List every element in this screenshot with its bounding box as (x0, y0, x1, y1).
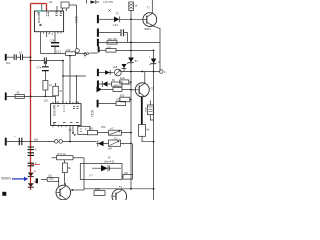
svg-text:C74: C74 (37, 66, 42, 70)
resistor below Q2 emitter (139, 125, 146, 137)
wire row y50.8 to right bus (116, 49, 154, 51)
wire shield line x76.5 (76, 5, 78, 48)
svg-text:8.2k: 8.2k (120, 76, 126, 80)
resistor 183 (88, 130, 98, 134)
svg-text:820: 820 (114, 84, 119, 88)
svg-text:T.1: T.1 (147, 6, 151, 10)
zener Z2 on right bus (151, 59, 157, 64)
connector circles pair bottom (54, 140, 58, 144)
junction dot (130, 18, 132, 20)
svg-text:IC31: IC31 (90, 110, 94, 117)
wire Q3 right side (66, 183, 85, 190)
svg-text:B56: B56 (49, 177, 54, 181)
transistor Q3 (56, 185, 71, 200)
svg-text:1k8: 1k8 (108, 37, 113, 41)
svg-text:C38: C38 (50, 39, 55, 43)
resistor above IC2 (53, 86, 59, 96)
IC U1 (IC21) box (35, 11, 64, 32)
pin highlight cyan (38, 10, 44, 12)
svg-text:4.7: 4.7 (110, 126, 114, 130)
IC2 bottom pin drop x70 (69, 126, 71, 142)
wire row y141.5 (7, 141, 55, 143)
svg-text:B829: B829 (145, 27, 152, 31)
terminal bar (98, 47, 100, 53)
IC2 pin stubs (53, 102, 79, 128)
connector circle right (159, 70, 163, 74)
resistor 822 (116, 101, 126, 105)
IC21 interior marks (38, 12, 62, 26)
riser x84 (83, 158, 85, 190)
connector circle (75, 49, 79, 53)
wire pin riser (41, 4, 43, 11)
resistor 105 (123, 175, 133, 180)
svg-text:IC21: IC21 (74, 16, 78, 23)
connector circles pair (84, 53, 87, 56)
svg-text:118: 118 (107, 46, 112, 50)
IC2 riser x63 long (62, 61, 64, 104)
IC21 bottom pin drops (41, 32, 56, 54)
trimpot box row y132.6 (109, 130, 122, 135)
wire to terminal (90, 52, 98, 54)
capacitor C38 (51, 43, 59, 46)
resistor 220 (66, 52, 76, 56)
wire bottom row y188.8 (84, 188, 154, 190)
diode small on row y71.5 (122, 64, 127, 68)
svg-text:R85: R85 (95, 187, 100, 191)
wire C38 down (54, 47, 56, 54)
wire y76 branch (63, 75, 86, 77)
red branch right (31, 163, 41, 165)
diode row y89.8 (97, 87, 102, 92)
transistor Q4 (112, 189, 127, 204)
diode dark on red rail upper (28, 173, 34, 177)
row2 terminal bar (97, 29, 99, 37)
resistor top right vertical (129, 2, 134, 11)
resistor on right bus vertical (147, 105, 153, 115)
wire Q2 emitter thick down (141, 97, 143, 125)
wire row y72.5 (99, 72, 114, 74)
red tick (34, 171, 36, 183)
svg-text:820: 820 (120, 94, 125, 98)
electrolytic cap plates (42, 67, 49, 71)
resistor long row y157.7 (52, 157, 57, 159)
capacitor pair on y60.6 (44, 57, 46, 64)
diode D row1 (114, 17, 120, 23)
wire Q1 emitter to right drop (153, 26, 161, 72)
resistor 118 (106, 49, 116, 53)
svg-text:103: 103 (44, 99, 49, 103)
wire cap2 to row3 (124, 33, 128, 43)
vertical chain x45 (44, 61, 46, 97)
svg-text:1.3A: 1.3A (113, 23, 119, 27)
resistor left of Q2 lower (120, 97, 130, 102)
wire Q1 collector up (151, 0, 153, 13)
svg-text:250: 250 (101, 125, 106, 129)
pot circle with arrow (114, 69, 121, 76)
svg-text:K?: K? (90, 174, 94, 178)
junction red (30, 141, 32, 143)
diode row y84 terminal bar (97, 81, 99, 88)
resistor 56 (15, 94, 24, 98)
electrolytic cap row y141.5 (19, 138, 22, 145)
wire to junction x70 (63, 141, 97, 143)
wire red drop to IC21 pin (46, 4, 48, 12)
diode in box (101, 165, 108, 171)
resistor bottom (94, 191, 105, 196)
row y103.5 terminal bar (97, 100, 99, 108)
wire Q2 base from bus (131, 89, 135, 91)
wire right of red y60.6 (31, 60, 45, 62)
wire red rail vertical (30, 4, 32, 191)
wire red top horizontal (31, 3, 47, 5)
resistor row y89.8 (113, 87, 122, 91)
resistor row y84 (112, 82, 123, 86)
wire box drops (63, 8, 67, 11)
svg-text:1k8: 1k8 (108, 147, 113, 151)
diode dark on red rail lower (28, 183, 34, 187)
riser x132.6 (132, 144, 134, 175)
resistor on x45 (43, 81, 48, 91)
transistor Q2 (135, 83, 149, 97)
svg-text:183: 183 (89, 127, 94, 131)
junction dot (130, 50, 132, 52)
trimpot box row y143.5 (109, 140, 121, 146)
wire to R118 (100, 49, 106, 51)
capacitor pair 2 (21, 54, 23, 60)
svg-text:602: 602 (34, 137, 39, 141)
x mark (109, 10, 111, 12)
blue arrow (12, 178, 25, 180)
black square bottom left (2, 192, 6, 196)
wire row y132.6 (90, 132, 131, 134)
resistor row3 (107, 41, 117, 44)
junction dots row71.5 (130, 71, 132, 73)
wire main row y53.5 (41, 53, 66, 55)
capacitor electrolytic row2 (121, 29, 124, 36)
wire to red rail (23, 56, 31, 58)
IC21 bottom pin stubs (44, 32, 62, 34)
wire row1 y19.3 (99, 18, 114, 20)
wire row1 to T1 base (120, 18, 143, 20)
svg-text:705: 705 (124, 171, 129, 175)
row3 terminal bar (97, 39, 99, 47)
svg-text:822: 822 (117, 98, 122, 102)
svg-text:4.7k 25V: 4.7k 25V (103, 0, 114, 4)
svg-text:(Nn=4.5): (Nn=4.5) (104, 159, 114, 163)
wire to connector (76, 53, 87, 55)
right bus x154.5 (153, 50, 155, 200)
svg-text:10.2: 10.2 (56, 50, 62, 54)
IC2 riser x70 long (69, 56, 71, 104)
wire to riser x63 (46, 60, 63, 62)
wire row y71.5 (121, 71, 160, 73)
diode row y143.5 (98, 141, 104, 147)
wire row y96.4 (7, 95, 56, 97)
wire resistor down and right to bus (142, 136, 154, 141)
connector box right of IC2 (78, 126, 90, 134)
wire Q2 collector up (144, 72, 146, 84)
junction dots (30, 96, 32, 98)
left terminal bar row y57 (5, 54, 7, 61)
IC2 bottom pin drop x73 (72, 126, 74, 134)
svg-text:12V: 12V (49, 2, 54, 4)
svg-text:500mV: 500mV (1, 177, 12, 181)
IC U2 box (51, 104, 81, 126)
diode row y72.5 (105, 70, 110, 75)
wire left row y57.2 (7, 56, 14, 58)
IC2 interior marks (53, 106, 79, 125)
diode row y72.5 terminal bar (97, 69, 99, 76)
diode left-pointing row y84 (103, 81, 108, 87)
resistor row y179.4 (47, 178, 59, 182)
zener Z1 on bus131 (128, 58, 134, 63)
junction dot (130, 42, 132, 44)
top edge cut component diode (91, 1, 96, 4)
terminal bar row y96.4 (5, 93, 7, 101)
bus x131 (130, 19, 132, 189)
IC2 riser x76.5 (76, 76, 78, 104)
capacitor pair 1 (14, 54, 16, 60)
resistor left of Q2 upper (120, 80, 129, 84)
svg-text:R71 1k: R71 1k (58, 152, 67, 156)
svg-text:C: C (84, 55, 86, 59)
black bar right of red (36, 178, 38, 183)
svg-text:220: 220 (66, 48, 71, 52)
wire row y84 (99, 83, 112, 85)
capacitor pairs on red rail (28, 147, 34, 166)
wire row2 y32.6 (99, 32, 120, 34)
terminal bar row y141.5 (5, 138, 7, 146)
wire row3 y42.4 (99, 41, 160, 43)
svg-text:AN5836: AN5836 (53, 108, 56, 117)
svg-text:1k8: 1k8 (113, 65, 118, 69)
junction dot (153, 50, 155, 52)
wire resistor to row1 (130, 11, 132, 20)
wire box to shield line (69, 4, 77, 6)
svg-text:AN5265: AN5265 (37, 15, 40, 24)
svg-text:50u: 50u (6, 61, 11, 65)
transistor Q1 (B829) (143, 13, 157, 27)
row1 terminal bar (97, 15, 99, 23)
protection box bottom (80, 164, 122, 180)
wire pin riser (56, 6, 58, 11)
vertical resistor x64.6 (64, 160, 66, 163)
junction dot on red (30, 56, 32, 58)
svg-text:TC: TC (116, 12, 120, 16)
wire row y103.5 (99, 103, 116, 105)
component top box (61, 2, 69, 8)
